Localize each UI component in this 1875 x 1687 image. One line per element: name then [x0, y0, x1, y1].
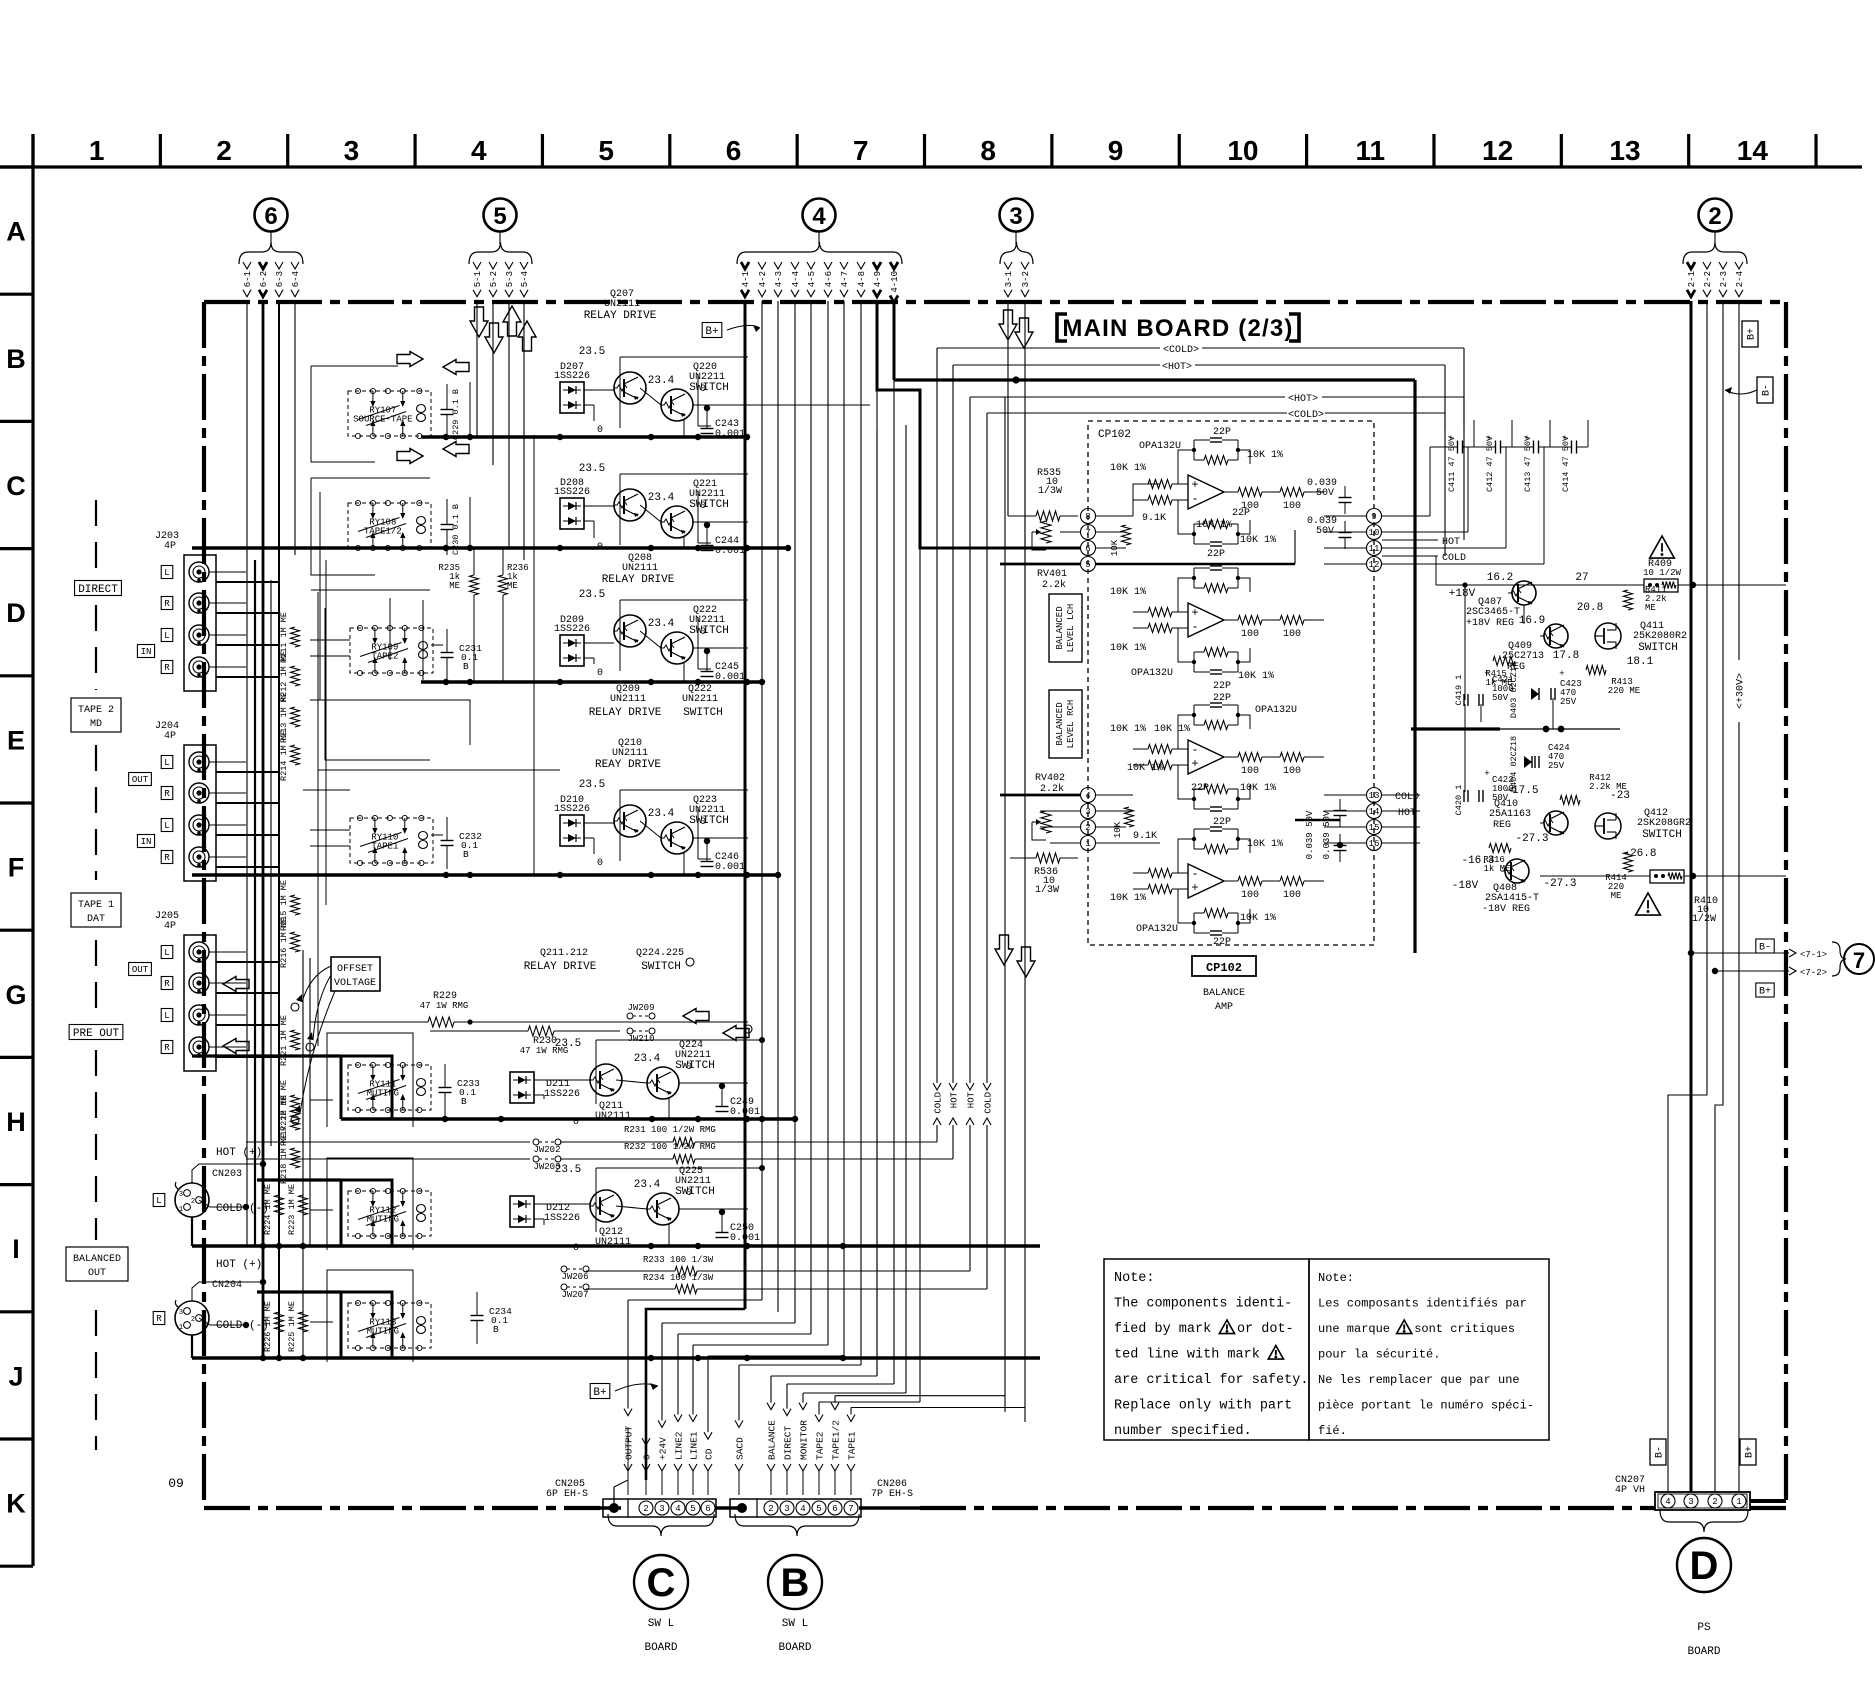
svg-text:47 1W RMG: 47 1W RMG	[520, 1046, 569, 1056]
svg-text:+: +	[1191, 478, 1198, 492]
svg-text:B-: B-	[1762, 384, 1773, 396]
svg-text:14: 14	[1369, 807, 1380, 817]
svg-text:220 ME: 220 ME	[1608, 686, 1640, 696]
svg-text:SWITCH: SWITCH	[683, 707, 723, 719]
svg-text:BALANCED: BALANCED	[1055, 702, 1065, 745]
svg-text:22P: 22P	[1232, 508, 1250, 519]
svg-text:R226 1M ME: R226 1M ME	[263, 1301, 273, 1352]
svg-text:+: +	[1486, 434, 1491, 444]
svg-text:RELAY DRIVE: RELAY DRIVE	[524, 961, 597, 973]
svg-text:A: A	[6, 217, 26, 247]
svg-text:L: L	[164, 568, 169, 578]
svg-text:R: R	[164, 599, 170, 609]
svg-text:UN2111: UN2111	[612, 748, 648, 759]
svg-text:6-2: 6-2	[259, 271, 269, 287]
svg-text:fied by mark: fied by mark	[1114, 1322, 1211, 1337]
svg-text:DIRECT: DIRECT	[782, 1425, 793, 1460]
svg-text:5: 5	[816, 1504, 821, 1514]
svg-text:2SA1415-T: 2SA1415-T	[1485, 893, 1539, 904]
svg-text:9: 9	[1108, 135, 1124, 166]
svg-text:JW202: JW202	[533, 1145, 560, 1155]
svg-text:UN2111: UN2111	[604, 299, 640, 310]
svg-text:4: 4	[675, 1504, 680, 1514]
svg-text:23.5: 23.5	[579, 589, 605, 601]
svg-text:SWITCH: SWITCH	[641, 961, 681, 973]
svg-text:25V: 25V	[1548, 761, 1565, 771]
svg-text:22P: 22P	[1213, 693, 1231, 704]
svg-text:CD: CD	[703, 1448, 714, 1460]
svg-text:5-4: 5-4	[520, 271, 530, 287]
svg-text:L: L	[164, 631, 169, 641]
svg-text:MUTING: MUTING	[367, 1327, 399, 1337]
svg-text:+: +	[1191, 606, 1198, 620]
svg-text:SWITCH: SWITCH	[689, 382, 729, 394]
svg-text:1/3W: 1/3W	[1038, 485, 1062, 497]
svg-text:2-2: 2-2	[1703, 271, 1713, 287]
svg-text:0: 0	[597, 858, 603, 869]
svg-text:15: 15	[1369, 823, 1380, 833]
svg-text:2-4: 2-4	[1735, 271, 1745, 287]
svg-text:R232 100 1/2W RMG: R232 100 1/2W RMG	[624, 1142, 716, 1152]
svg-text:4: 4	[812, 203, 826, 230]
svg-text:H: H	[6, 1107, 26, 1137]
svg-text:R: R	[164, 1043, 170, 1053]
svg-text:2: 2	[1708, 203, 1721, 230]
svg-text:F: F	[8, 853, 25, 883]
svg-text:G: G	[5, 980, 26, 1010]
svg-text:<+30V>: <+30V>	[1736, 673, 1747, 709]
svg-text:OPA132U: OPA132U	[1255, 705, 1297, 716]
svg-text:2: 2	[643, 1504, 648, 1514]
svg-text:+18V REG: +18V REG	[1466, 618, 1514, 629]
svg-text:+: +	[1484, 669, 1489, 679]
svg-text:11: 11	[1355, 135, 1385, 166]
svg-text:B+: B+	[705, 326, 718, 338]
svg-text:<HOT>: <HOT>	[1288, 394, 1318, 405]
svg-text:47 1W RMG: 47 1W RMG	[420, 1001, 469, 1011]
svg-text:D: D	[1690, 1544, 1719, 1588]
svg-text:10K 1%: 10K 1%	[1110, 463, 1146, 474]
svg-text:4P: 4P	[164, 731, 176, 742]
svg-text:MUTING: MUTING	[367, 1089, 399, 1099]
svg-text:100: 100	[1241, 629, 1259, 640]
svg-text:B+: B+	[1759, 987, 1771, 998]
svg-text:17.8: 17.8	[1553, 650, 1579, 662]
svg-text:LINE2: LINE2	[673, 1431, 684, 1460]
svg-text:VOLTAGE: VOLTAGE	[334, 978, 376, 989]
svg-text:B+: B+	[1747, 328, 1758, 340]
svg-text:+: +	[1448, 434, 1453, 444]
svg-text:23.5: 23.5	[579, 346, 605, 358]
svg-text:6: 6	[264, 203, 277, 230]
svg-text:0: 0	[573, 1243, 579, 1254]
svg-text:+24V: +24V	[657, 1437, 668, 1460]
svg-text:23.4: 23.4	[648, 808, 675, 820]
svg-text:0: 0	[597, 425, 603, 436]
svg-text:RELAY DRIVE: RELAY DRIVE	[602, 574, 675, 586]
svg-text:0: 0	[573, 1117, 579, 1128]
svg-text:16.2: 16.2	[1487, 572, 1513, 584]
svg-text:+: +	[1562, 434, 1567, 444]
svg-text:1: 1	[179, 1206, 183, 1214]
svg-text:TAPE1/2: TAPE1/2	[830, 1420, 841, 1460]
svg-text:4P: 4P	[164, 921, 176, 932]
svg-text:L: L	[164, 821, 169, 831]
svg-text:CN203: CN203	[212, 1169, 242, 1180]
svg-text:I: I	[12, 1234, 20, 1264]
svg-text:SWITCH: SWITCH	[675, 1186, 715, 1198]
svg-text:+18V: +18V	[1449, 588, 1476, 600]
svg-text:LEVEL RCH: LEVEL RCH	[1066, 700, 1076, 749]
svg-text:100: 100	[1241, 890, 1259, 901]
svg-text:11: 11	[1369, 544, 1380, 554]
svg-text:HOT: HOT	[1442, 537, 1460, 548]
svg-text:LEVEL LCH: LEVEL LCH	[1066, 604, 1076, 653]
svg-text:25K2080R2: 25K2080R2	[1633, 631, 1687, 642]
svg-text:SW L: SW L	[782, 1618, 808, 1630]
svg-text:5: 5	[690, 1504, 695, 1514]
svg-text:6: 6	[1085, 544, 1090, 554]
svg-text:0.039 50V: 0.039 50V	[1322, 810, 1332, 859]
svg-text:B+: B+	[1745, 1446, 1756, 1458]
svg-text:BALANCE: BALANCE	[1203, 988, 1245, 999]
svg-text:R: R	[164, 979, 170, 989]
svg-text:OFFSET: OFFSET	[337, 964, 373, 975]
svg-text:16: 16	[1369, 839, 1380, 849]
svg-text:27: 27	[1575, 572, 1588, 584]
svg-text:23.4: 23.4	[634, 1179, 661, 1191]
svg-text:6: 6	[726, 135, 742, 166]
svg-text:LINE1: LINE1	[688, 1431, 699, 1460]
svg-text:BOARD: BOARD	[778, 1642, 811, 1654]
svg-text:3: 3	[179, 1191, 183, 1199]
svg-text:Les composants identifiés par: Les composants identifiés par	[1318, 1297, 1527, 1311]
svg-text:HOT: HOT	[1398, 808, 1416, 819]
svg-text:-27.3: -27.3	[1515, 833, 1548, 845]
svg-text:pièce portant le numéro spéci-: pièce portant le numéro spéci-	[1318, 1399, 1534, 1413]
svg-text:1/2W: 1/2W	[1692, 913, 1716, 925]
svg-text:OUTPUT: OUTPUT	[623, 1425, 634, 1460]
svg-text:PS: PS	[1697, 1622, 1711, 1634]
svg-text:OPA132U: OPA132U	[1139, 441, 1181, 452]
svg-text:OPA132U: OPA132U	[1136, 924, 1178, 935]
svg-text:L: L	[164, 758, 169, 768]
svg-text:9.1K: 9.1K	[1133, 831, 1157, 842]
svg-text:RELAY DRIVE: RELAY DRIVE	[584, 310, 657, 322]
svg-text:10K 1%: 10K 1%	[1247, 839, 1283, 850]
svg-text:14: 14	[1737, 135, 1769, 166]
svg-text:25V: 25V	[1560, 697, 1577, 707]
svg-text:6-3: 6-3	[275, 271, 285, 287]
svg-text:B-: B-	[1655, 1446, 1666, 1458]
svg-text:22P: 22P	[1207, 549, 1225, 560]
svg-text:SWITCH: SWITCH	[675, 1060, 715, 1072]
svg-text:BALANCED: BALANCED	[73, 1254, 121, 1265]
svg-text:COLD: COLD	[983, 1092, 993, 1114]
svg-text:R: R	[164, 853, 170, 863]
svg-text:100: 100	[1283, 629, 1301, 640]
svg-text:are critical for safety.: are critical for safety.	[1114, 1373, 1308, 1388]
svg-text:-26.8: -26.8	[1623, 848, 1656, 860]
svg-text:10K 1%: 10K 1%	[1110, 724, 1146, 735]
svg-text:5: 5	[1085, 560, 1090, 570]
svg-text:5: 5	[493, 203, 506, 230]
svg-text:2: 2	[768, 1504, 773, 1514]
svg-text:R214 1M ME: R214 1M ME	[279, 730, 289, 781]
svg-text:HOT (+): HOT (+)	[216, 1259, 262, 1271]
svg-text:-16.3: -16.3	[1461, 855, 1494, 867]
svg-text:R224 1M ME: R224 1M ME	[263, 1184, 273, 1235]
svg-text:6: 6	[832, 1504, 837, 1514]
svg-text:B: B	[6, 344, 26, 374]
svg-text:Q224.225: Q224.225	[636, 948, 684, 959]
svg-text:7: 7	[853, 135, 869, 166]
svg-text:IN: IN	[141, 837, 152, 847]
svg-text:SWITCH: SWITCH	[1638, 642, 1678, 654]
svg-text:C229 0.1 B: C229 0.1 B	[451, 389, 461, 440]
svg-text:ME: ME	[1645, 603, 1656, 613]
svg-text:JW210: JW210	[627, 1034, 654, 1044]
svg-text:MD: MD	[90, 719, 102, 730]
svg-text:The components identi-: The components identi-	[1114, 1297, 1292, 1312]
svg-text:E: E	[7, 725, 25, 755]
svg-text:BOARD: BOARD	[644, 1642, 677, 1654]
svg-text:10K 1%: 10K 1%	[1110, 893, 1146, 904]
svg-text:UN2111: UN2111	[595, 1237, 631, 1248]
svg-text:C: C	[647, 1561, 676, 1605]
svg-text:100: 100	[1283, 890, 1301, 901]
svg-text:0: 0	[597, 668, 603, 679]
svg-text:4-7: 4-7	[840, 271, 850, 287]
svg-text:BALANCED: BALANCED	[1055, 606, 1065, 649]
svg-text:23.4: 23.4	[648, 492, 675, 504]
svg-text:2: 2	[191, 1316, 195, 1324]
svg-text:D403 02CZ18: D403 02CZ18	[1509, 662, 1519, 718]
svg-text:4-2: 4-2	[758, 271, 768, 287]
svg-text:0.001: 0.001	[730, 1233, 760, 1244]
svg-text:10K 1%: 10K 1%	[1127, 763, 1163, 774]
svg-text:4P: 4P	[164, 541, 176, 552]
svg-text:6P EH-S: 6P EH-S	[546, 1489, 588, 1500]
svg-text:23.5: 23.5	[579, 779, 605, 791]
svg-text:12: 12	[1369, 560, 1380, 570]
svg-text:JW207: JW207	[561, 1290, 588, 1300]
svg-text:10K 1%: 10K 1%	[1247, 450, 1283, 461]
svg-text:RV402: RV402	[1035, 773, 1065, 784]
svg-text:4P VH: 4P VH	[1615, 1485, 1645, 1496]
svg-text:COLD: COLD	[1395, 792, 1419, 803]
svg-text:Note:: Note:	[1318, 1271, 1354, 1285]
svg-text:MAIN BOARD (2/3): MAIN BOARD (2/3)	[1062, 315, 1293, 342]
svg-text:50V: 50V	[1316, 488, 1334, 499]
svg-text:22P: 22P	[1191, 783, 1209, 794]
svg-text:100: 100	[1241, 766, 1259, 777]
svg-text:une marque: une marque	[1318, 1322, 1390, 1336]
svg-text:UN2111: UN2111	[622, 563, 658, 574]
svg-text:-18V REG: -18V REG	[1482, 904, 1530, 915]
svg-text:5-2: 5-2	[489, 271, 499, 287]
svg-text:13: 13	[1369, 791, 1380, 801]
svg-text:OPA132U: OPA132U	[1131, 668, 1173, 679]
svg-text:R223 1M ME: R223 1M ME	[287, 1184, 297, 1235]
svg-text:HOT: HOT	[949, 1091, 959, 1108]
svg-text:-17.5: -17.5	[1505, 785, 1538, 797]
svg-text:7: 7	[1853, 948, 1865, 973]
svg-text:5-3: 5-3	[505, 271, 515, 287]
svg-text:10K 1%: 10K 1%	[1240, 535, 1276, 546]
svg-text:2-1: 2-1	[1687, 271, 1697, 287]
svg-text:10K 1%: 10K 1%	[1110, 643, 1146, 654]
svg-text:-: -	[1191, 620, 1198, 634]
svg-text:Note:: Note:	[1114, 1271, 1155, 1286]
svg-text:23.4: 23.4	[648, 375, 675, 387]
svg-text:SW L: SW L	[648, 1618, 674, 1630]
svg-text:K: K	[6, 1489, 26, 1519]
svg-text:B: B	[461, 1096, 467, 1107]
svg-text:10K 1%: 10K 1%	[1154, 724, 1190, 735]
svg-text:COLD: COLD	[933, 1092, 943, 1114]
svg-text:R: R	[164, 789, 170, 799]
svg-text:SWITCH: SWITCH	[689, 815, 729, 827]
svg-text:22P: 22P	[1213, 817, 1231, 828]
svg-text:ME: ME	[449, 581, 460, 591]
svg-text:TAPE1/2: TAPE1/2	[364, 527, 402, 537]
svg-text:10K 1%: 10K 1%	[1238, 671, 1274, 682]
svg-text:Q211.212: Q211.212	[540, 948, 588, 959]
svg-text:Replace only with part: Replace only with part	[1114, 1399, 1292, 1414]
svg-text:0.001: 0.001	[715, 672, 745, 683]
svg-text:25C2713: 25C2713	[1502, 651, 1544, 662]
svg-text:<7-2>: <7-2>	[1800, 968, 1827, 978]
svg-text:5-1: 5-1	[473, 271, 483, 287]
svg-text:B: B	[463, 661, 469, 672]
svg-text:1/3W: 1/3W	[1035, 884, 1059, 896]
svg-text:C420 1: C420 1	[1454, 785, 1464, 816]
svg-text:-23: -23	[1610, 790, 1630, 802]
svg-text:REG: REG	[1493, 820, 1511, 831]
svg-text:2SC3465-T: 2SC3465-T	[1466, 607, 1520, 618]
svg-text:OUT: OUT	[132, 775, 149, 785]
svg-text:10K 1%: 10K 1%	[1196, 520, 1232, 531]
svg-text:10K: 10K	[1113, 821, 1123, 838]
svg-text:R222 1M ME: R222 1M ME	[279, 1080, 289, 1131]
svg-text:4-6: 4-6	[824, 271, 834, 287]
svg-text:fié.: fié.	[1318, 1424, 1347, 1438]
svg-text:<COLD>: <COLD>	[1163, 345, 1199, 356]
svg-text:23.5: 23.5	[579, 463, 605, 475]
svg-text:JW206: JW206	[561, 1272, 588, 1282]
svg-text:Ne les remplacer que par une: Ne les remplacer que par une	[1318, 1373, 1520, 1387]
svg-text:3: 3	[1688, 1497, 1693, 1507]
svg-text:12: 12	[1482, 135, 1513, 166]
svg-text:20.8: 20.8	[1577, 602, 1603, 614]
svg-text:PRE OUT: PRE OUT	[73, 1028, 120, 1040]
svg-text:100: 100	[1283, 501, 1301, 512]
svg-text:4: 4	[471, 135, 487, 166]
svg-text:C419 1: C419 1	[1454, 675, 1464, 706]
svg-text:0.001: 0.001	[715, 862, 745, 873]
svg-text:1SS226: 1SS226	[544, 1213, 580, 1224]
svg-text:25A1163: 25A1163	[1489, 809, 1531, 820]
svg-text:16.9: 16.9	[1519, 615, 1545, 627]
svg-text:100: 100	[1283, 766, 1301, 777]
svg-text:B: B	[463, 849, 469, 860]
svg-text:OUT: OUT	[132, 965, 149, 975]
svg-text:0.001: 0.001	[730, 1107, 760, 1118]
svg-text:ted line with mark: ted line with mark	[1114, 1348, 1260, 1363]
svg-text:<7-1>: <7-1>	[1800, 950, 1827, 960]
svg-text:number specified.: number specified.	[1114, 1424, 1252, 1439]
svg-text:TAPE 2: TAPE 2	[78, 705, 114, 716]
svg-text:5: 5	[598, 135, 614, 166]
svg-text:R: R	[156, 1314, 162, 1324]
svg-text:18.1: 18.1	[1627, 656, 1654, 668]
svg-text:9: 9	[1371, 512, 1376, 522]
svg-text:0.001: 0.001	[715, 429, 745, 440]
svg-text:RV401: RV401	[1037, 569, 1067, 580]
svg-text:R225 1M ME: R225 1M ME	[287, 1301, 297, 1352]
svg-text:R218 1M ME: R218 1M ME	[279, 1133, 289, 1184]
svg-text:L: L	[164, 1011, 169, 1021]
svg-text:50V: 50V	[1492, 693, 1509, 703]
svg-text:10: 10	[1227, 135, 1258, 166]
svg-text:HOT: HOT	[966, 1091, 976, 1108]
svg-text:RELAY DRIVE: RELAY DRIVE	[589, 707, 662, 719]
svg-text:3-2: 3-2	[1021, 271, 1031, 287]
svg-text:REAY DRIVE: REAY DRIVE	[595, 759, 661, 771]
svg-text:4-5: 4-5	[807, 271, 817, 287]
svg-text:COLD: COLD	[1442, 553, 1466, 564]
svg-text:13: 13	[1609, 135, 1640, 166]
svg-text:pour la sécurité.: pour la sécurité.	[1318, 1348, 1440, 1362]
svg-text:DAT: DAT	[87, 914, 105, 925]
svg-text:3: 3	[1085, 807, 1090, 817]
svg-text:CP102: CP102	[1206, 961, 1242, 975]
svg-text:SWITCH: SWITCH	[689, 625, 729, 637]
svg-text:2: 2	[1085, 823, 1090, 833]
svg-text:2-3: 2-3	[1719, 271, 1729, 287]
svg-text:2.2k: 2.2k	[1042, 579, 1066, 591]
svg-text:23.4: 23.4	[648, 618, 675, 630]
svg-text:+: +	[1524, 434, 1529, 444]
svg-text:UN2111: UN2111	[595, 1111, 631, 1122]
svg-text:AMP: AMP	[1215, 1002, 1233, 1013]
svg-text:9.1K: 9.1K	[1142, 513, 1166, 524]
svg-text:1SS226: 1SS226	[554, 624, 590, 635]
svg-text:10K 1%: 10K 1%	[1240, 913, 1276, 924]
svg-text:SWITCH: SWITCH	[1642, 829, 1682, 841]
svg-text:-: -	[1191, 492, 1198, 506]
svg-text:R231 100 1/2W RMG: R231 100 1/2W RMG	[624, 1125, 716, 1135]
svg-text:or dot-: or dot-	[1237, 1322, 1294, 1337]
svg-text:SACD: SACD	[734, 1437, 745, 1460]
svg-text:6-4: 6-4	[291, 271, 301, 287]
svg-text:22P: 22P	[1213, 937, 1231, 948]
svg-text:4-9: 4-9	[873, 271, 883, 287]
svg-text:B-: B-	[1759, 943, 1771, 954]
svg-text:8: 8	[1085, 512, 1090, 522]
svg-text:1SS226: 1SS226	[554, 804, 590, 815]
svg-text:J: J	[8, 1361, 23, 1391]
svg-text:4-10: 4-10	[890, 271, 900, 293]
svg-text:R: R	[164, 663, 170, 673]
svg-text:1: 1	[89, 135, 105, 166]
svg-text:ME: ME	[1611, 891, 1622, 901]
svg-text:3: 3	[344, 135, 360, 166]
svg-text:-18V: -18V	[1452, 880, 1479, 892]
svg-text:CP102: CP102	[1098, 429, 1131, 441]
svg-text:MUTING: MUTING	[367, 1215, 399, 1225]
